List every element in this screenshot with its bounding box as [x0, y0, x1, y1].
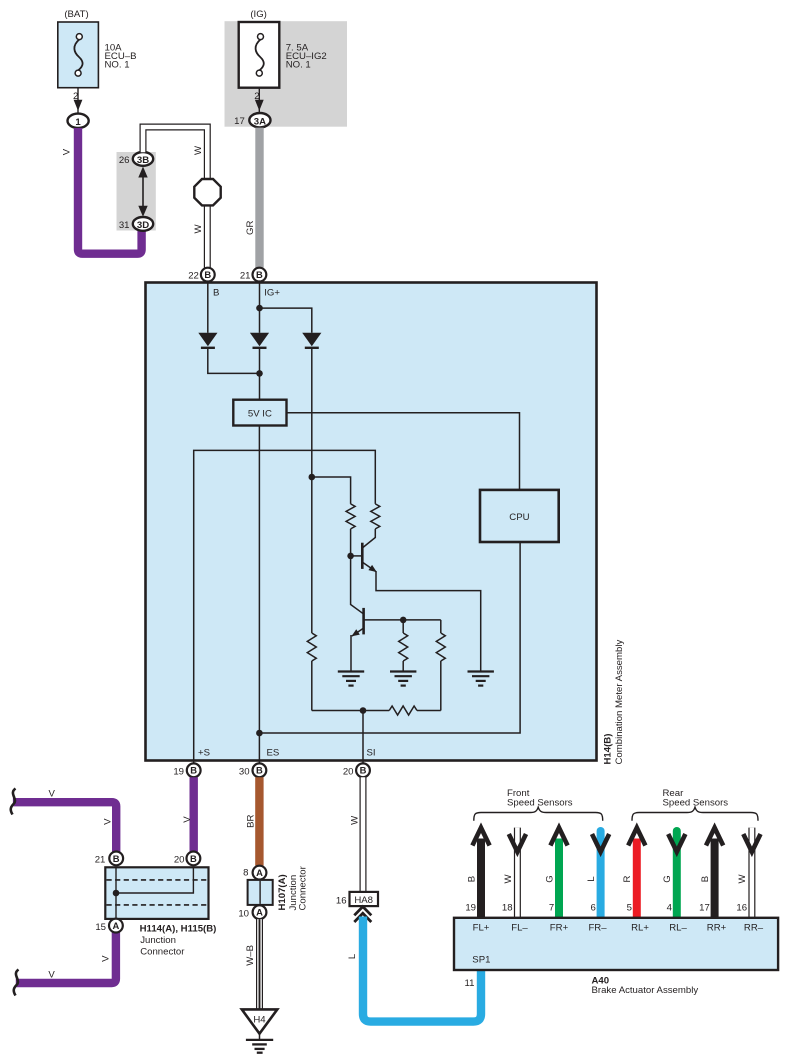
sensor wire W FL- pin 18 — [502, 828, 526, 918]
label A40 Brake Actuator Assembly — [592, 976, 699, 996]
wire V violet from H114 pin 21 to left edge — [13, 789, 116, 852]
svg-text:V: V — [48, 969, 55, 980]
sensor wire G RL- pin 4 — [662, 831, 685, 918]
svg-text:R: R — [622, 875, 633, 882]
svg-text:17: 17 — [234, 116, 245, 127]
svg-text:Connector: Connector — [298, 865, 309, 910]
svg-text:V: V — [101, 955, 112, 962]
wire +S from pin 19 up and over to R2 — [194, 450, 376, 763]
svg-text:16: 16 — [336, 895, 347, 906]
svg-text:RR–: RR– — [744, 922, 764, 933]
junction dot Q2 base — [400, 617, 407, 624]
svg-text:FL+: FL+ — [473, 922, 490, 933]
svg-text:8: 8 — [243, 867, 248, 878]
wire GR gray from 3A to pin 21 — [245, 128, 260, 268]
junction dot D3 branch to R1 — [309, 474, 316, 481]
svg-text:A: A — [113, 920, 120, 931]
svg-text:B: B — [360, 765, 367, 776]
combination meter assembly box H14(B) — [146, 283, 597, 761]
wire ES from 5V IC to pin 30 — [258, 426, 260, 764]
svg-text:11: 11 — [465, 978, 475, 989]
label Rear Speed Sensors — [663, 788, 729, 808]
sensor wire L FR- pin 6 — [586, 831, 609, 918]
wire W white from 3B through noise filter to pin 22 — [143, 127, 207, 268]
svg-text:Junction: Junction — [140, 935, 176, 946]
brake actuator assembly box A40 — [454, 918, 778, 970]
svg-text:A: A — [256, 867, 263, 878]
svg-text:5V IC: 5V IC — [248, 409, 272, 420]
node label +S — [198, 748, 210, 759]
junction connector H114 box — [105, 867, 208, 919]
resistor R3 on D3 branch — [307, 633, 316, 711]
resistor R6 horizontal on SI node — [312, 706, 441, 715]
wire 5V IC to CPU top — [287, 413, 520, 490]
CPU box — [480, 490, 559, 542]
wire Q1 base down to Q2 collector — [351, 556, 364, 614]
fuse F2 7.5A ECU-IG2 (IG) — [239, 9, 327, 88]
svg-text:15: 15 — [95, 922, 106, 933]
svg-text:19: 19 — [173, 767, 184, 778]
junction dot ES node — [256, 730, 263, 737]
label H14(B) Combination Meter Assembly — [602, 640, 625, 765]
svg-text:10: 10 — [238, 909, 249, 920]
wire IG+ to diode D2 — [259, 283, 261, 333]
brace rear sensors — [632, 807, 758, 821]
H114 pin 20 B — [174, 852, 200, 866]
wire fuse IG output pin 2 — [254, 88, 263, 113]
svg-text:W: W — [737, 874, 748, 884]
wire V violet from H114 pin 15 to left edge — [16, 933, 116, 984]
svg-text:V: V — [102, 818, 113, 825]
pin 22 B — [188, 268, 214, 282]
svg-text:(BAT): (BAT) — [64, 9, 88, 20]
continuation squiggle top left — [11, 789, 16, 815]
wire W-B from H107 pin 10 to ground H4 — [245, 919, 259, 1009]
svg-text:30: 30 — [239, 767, 250, 778]
svg-text:B: B — [190, 765, 197, 776]
svg-text:B: B — [204, 269, 211, 280]
svg-text:FR+: FR+ — [550, 922, 569, 933]
svg-text:20: 20 — [343, 767, 354, 778]
connector 3A pin 17 — [234, 113, 270, 127]
svg-text:+S: +S — [198, 748, 210, 759]
label H114(A), H115(B) Junction Connector — [140, 923, 217, 957]
svg-text:W–B: W–B — [245, 945, 256, 966]
continuation squiggle bottom left — [14, 970, 19, 996]
svg-text:NO. 1: NO. 1 — [286, 59, 311, 70]
svg-text:7: 7 — [549, 903, 554, 914]
svg-text:B: B — [213, 287, 219, 298]
ground H4 — [242, 1009, 277, 1052]
wire R1 to Q1 base — [350, 529, 352, 556]
svg-text:3D: 3D — [137, 220, 149, 231]
pin 30 B — [239, 763, 266, 777]
brace front sensors — [474, 807, 603, 821]
wire W white pin 20 to HA8 — [349, 777, 363, 892]
wire branch to R1 — [312, 477, 351, 504]
svg-text:20: 20 — [174, 855, 185, 866]
junction connector H107 box — [248, 880, 273, 905]
svg-text:W: W — [349, 815, 360, 825]
transistor Q2 — [350, 608, 441, 639]
wire D2 output to 5V IC — [259, 348, 261, 400]
svg-text:4: 4 — [667, 903, 673, 914]
sensor wire G FR+ pin 7 — [544, 828, 567, 918]
svg-text:3A: 3A — [254, 116, 266, 127]
svg-text:16: 16 — [736, 903, 747, 914]
sensor wire W RR- pin 16 — [736, 828, 760, 918]
gray panel behind IG fuse — [225, 21, 348, 127]
H107 pin 10 A — [238, 905, 266, 919]
wire Q1 emitter to ground G3 — [376, 571, 481, 671]
svg-text:G: G — [544, 875, 555, 882]
svg-text:RR+: RR+ — [707, 922, 727, 933]
svg-text:B: B — [190, 853, 197, 864]
svg-text:1: 1 — [75, 117, 81, 128]
svg-text:22: 22 — [188, 271, 199, 282]
diode D2 — [250, 333, 269, 348]
svg-text:B: B — [466, 876, 477, 882]
connector 3B pin 26 — [119, 152, 153, 166]
svg-text:BR: BR — [245, 814, 256, 827]
svg-text:V: V — [48, 789, 55, 800]
resistor R2 — [371, 504, 380, 529]
svg-text:W: W — [193, 224, 204, 234]
pin 21 B — [240, 268, 266, 282]
gray panel behind connectors 3B/3D — [117, 152, 156, 231]
wire BR brown pin 30 to H107 pin 8 — [245, 777, 259, 866]
svg-text:Speed Sensors: Speed Sensors — [507, 798, 573, 809]
svg-text:CPU: CPU — [509, 512, 529, 523]
wire branch IG+ to diode D3 — [260, 308, 312, 333]
wire V violet from connector 1 to 3D — [62, 128, 142, 254]
svg-text:GR: GR — [245, 221, 256, 235]
H114 pin 21 B — [95, 852, 123, 866]
svg-text:ES: ES — [267, 748, 280, 759]
svg-text:B: B — [256, 269, 263, 280]
transistor Q1 — [351, 529, 379, 575]
connector 1 — [68, 114, 89, 128]
svg-text:5: 5 — [627, 903, 632, 914]
shield chevrons below HA8 — [354, 907, 371, 922]
noise filter octagon — [194, 179, 220, 205]
resistor R1 — [346, 504, 355, 529]
wire CPU bottom to ES node — [259, 543, 520, 734]
svg-text:(IG): (IG) — [250, 9, 267, 20]
junction dot SI node — [360, 707, 367, 714]
junction dot diodes — [256, 370, 263, 377]
node label SI — [367, 748, 376, 759]
sensor wire B FL+ pin 19 — [465, 828, 489, 918]
svg-text:H114(A), H115(B): H114(A), H115(B) — [140, 923, 217, 934]
wire Q2 emitter to ground G1 — [350, 635, 352, 671]
svg-text:21: 21 — [95, 855, 106, 866]
fuse F1 10A ECU-B (BAT) — [58, 9, 137, 88]
svg-text:SP1: SP1 — [472, 955, 490, 966]
node label IG+ — [264, 287, 280, 298]
wire V violet pin 19 to H114 pin 20 — [182, 777, 194, 852]
svg-text:W: W — [193, 145, 204, 155]
svg-text:H4: H4 — [253, 1014, 266, 1025]
sensor wire B RR+ pin 17 — [699, 828, 723, 918]
svg-text:B: B — [700, 876, 711, 882]
svg-text:HA8: HA8 — [354, 895, 373, 906]
svg-text:18: 18 — [502, 903, 513, 914]
node label B — [213, 287, 219, 298]
svg-text:NO. 1: NO. 1 — [105, 59, 130, 70]
svg-text:H107(A): H107(A) — [277, 874, 288, 910]
svg-text:6: 6 — [590, 903, 595, 914]
H114 pin 15 A — [95, 919, 122, 933]
pin 19 B — [173, 763, 200, 777]
svg-text:H14(B): H14(B) — [602, 734, 613, 765]
junction dot IG+ branch — [256, 305, 263, 312]
svg-text:Connector: Connector — [140, 946, 185, 957]
connector HA8 — [336, 892, 378, 906]
svg-text:17: 17 — [699, 903, 710, 914]
diode D3 — [302, 333, 321, 348]
svg-text:A: A — [256, 907, 263, 918]
wire L light blue from HA8 to A40 pin 11 — [347, 917, 481, 1022]
5V IC regulator box — [233, 400, 286, 426]
svg-text:IG+: IG+ — [264, 287, 280, 298]
svg-text:L: L — [586, 876, 597, 882]
svg-text:RL–: RL– — [669, 922, 687, 933]
svg-text:21: 21 — [240, 271, 251, 282]
node label ES — [267, 748, 280, 759]
connector 3D pin 31 — [119, 217, 153, 231]
label Front Speed Sensors — [507, 788, 573, 808]
svg-text:V: V — [182, 816, 193, 823]
sensor wire R RL+ pin 5 — [622, 828, 645, 918]
ground G3 — [468, 672, 494, 686]
svg-text:3B: 3B — [137, 155, 149, 166]
svg-text:31: 31 — [119, 220, 130, 231]
junction dot Q1 base — [347, 553, 354, 560]
resistor R5 from Q2 base — [436, 620, 445, 711]
diode D1 — [198, 333, 217, 348]
svg-text:L: L — [347, 953, 358, 959]
svg-text:19: 19 — [465, 903, 476, 914]
wire SI to pin 20 — [362, 711, 364, 764]
wire B to diode D1 — [207, 283, 209, 333]
svg-text:RL+: RL+ — [631, 922, 649, 933]
resistor R4 base to ground — [399, 620, 408, 671]
svg-text:FR–: FR– — [588, 922, 607, 933]
ground G2 — [390, 672, 416, 686]
wire D3 down long branch — [311, 348, 313, 633]
svg-text:FL–: FL– — [511, 922, 528, 933]
svg-text:SI: SI — [367, 748, 376, 759]
label H107(A) Junction Connector — [277, 865, 308, 910]
ground G1 — [338, 672, 364, 686]
svg-text:26: 26 — [119, 155, 130, 166]
svg-text:W: W — [503, 874, 514, 884]
double arrow between 3B and 3D — [138, 167, 147, 217]
wire fuse BAT output pin 2 — [73, 88, 82, 114]
H107 pin 8 A — [243, 866, 266, 880]
svg-text:G: G — [662, 875, 673, 882]
wire D1 output to IG+ node — [208, 348, 260, 374]
svg-text:Brake Actuator Assembly: Brake Actuator Assembly — [592, 985, 699, 996]
svg-text:Combination Meter Assembly: Combination Meter Assembly — [614, 640, 625, 765]
svg-text:V: V — [62, 148, 73, 155]
pin 20 B — [343, 763, 370, 777]
svg-text:B: B — [256, 765, 263, 776]
svg-text:B: B — [113, 853, 120, 864]
